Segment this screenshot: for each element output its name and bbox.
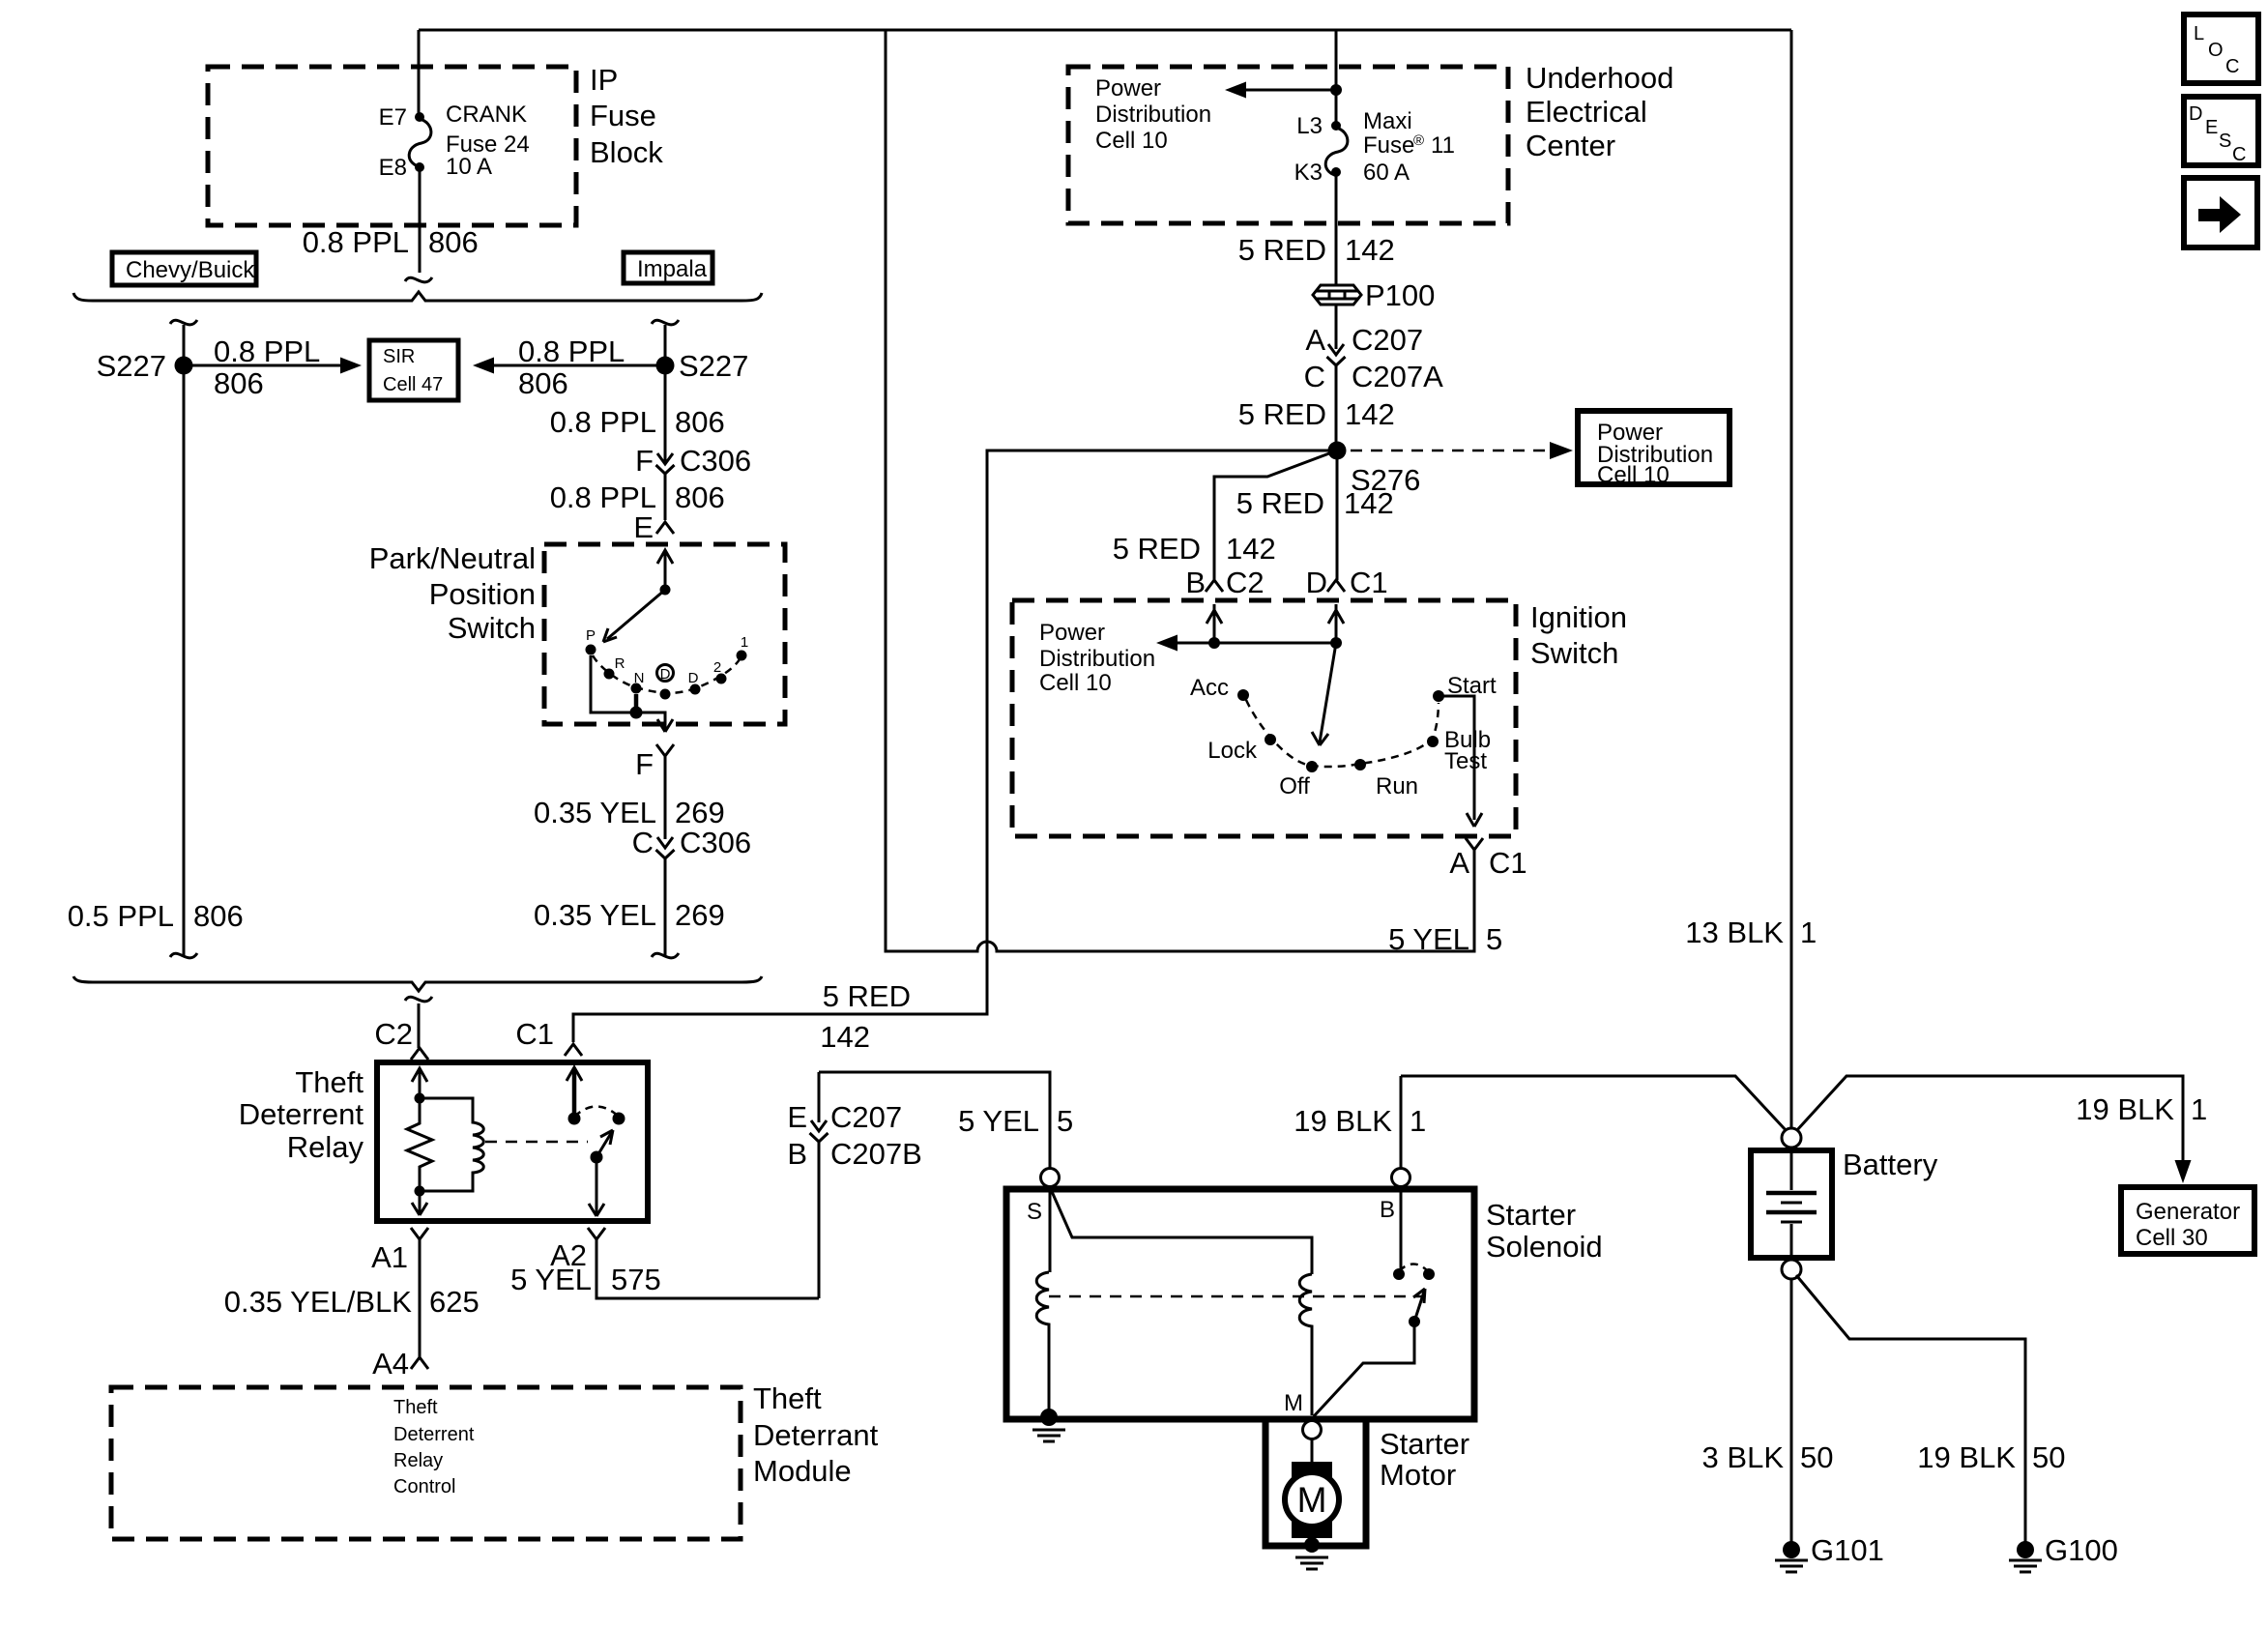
svg-text:C1: C1 xyxy=(515,1017,554,1051)
svg-text:0.8 PPL: 0.8 PPL xyxy=(550,480,656,514)
svg-text:L3: L3 xyxy=(1296,113,1323,139)
svg-text:C207: C207 xyxy=(1352,323,1423,357)
svg-text:D: D xyxy=(1306,566,1327,599)
svg-text:Maxi: Maxi xyxy=(1363,108,1412,134)
svg-text:A4: A4 xyxy=(372,1347,409,1381)
svg-text:Acc: Acc xyxy=(1190,675,1229,701)
svg-text:Underhood: Underhood xyxy=(1526,61,1673,95)
svg-text:19 BLK: 19 BLK xyxy=(2076,1092,2174,1126)
svg-text:M: M xyxy=(1284,1390,1303,1416)
svg-text:S: S xyxy=(1027,1199,1042,1225)
svg-text:E8: E8 xyxy=(379,155,407,181)
svg-text:Starter: Starter xyxy=(1486,1198,1576,1232)
svg-text:Battery: Battery xyxy=(1843,1148,1938,1181)
svg-text:806: 806 xyxy=(518,366,568,400)
svg-text:Theft: Theft xyxy=(295,1065,363,1099)
svg-text:®: ® xyxy=(1413,132,1424,149)
svg-text:B: B xyxy=(787,1137,807,1171)
svg-text:Electrical: Electrical xyxy=(1526,95,1647,129)
svg-text:C306: C306 xyxy=(680,444,751,478)
svg-text:F: F xyxy=(635,747,654,781)
svg-text:13 BLK: 13 BLK xyxy=(1685,916,1784,949)
svg-text:S: S xyxy=(2219,131,2231,152)
svg-text:60 A: 60 A xyxy=(1363,160,1410,186)
svg-text:50: 50 xyxy=(1800,1440,1833,1474)
svg-text:11: 11 xyxy=(1431,132,1455,159)
svg-text:IP: IP xyxy=(590,63,618,97)
svg-text:0.5 PPL: 0.5 PPL xyxy=(68,899,174,933)
svg-text:Power: Power xyxy=(1095,75,1161,102)
svg-text:D: D xyxy=(660,666,671,683)
svg-text:0.35 YEL: 0.35 YEL xyxy=(534,796,656,829)
svg-text:Deterrant: Deterrant xyxy=(753,1418,879,1452)
svg-text:Park/Neutral: Park/Neutral xyxy=(369,541,536,575)
svg-text:A: A xyxy=(1305,323,1325,357)
svg-text:Cell 10: Cell 10 xyxy=(1095,128,1168,154)
svg-text:Center: Center xyxy=(1526,129,1615,162)
svg-text:1: 1 xyxy=(1410,1104,1426,1138)
svg-text:5 RED: 5 RED xyxy=(1113,532,1201,566)
svg-text:Cell 10: Cell 10 xyxy=(1597,462,1670,488)
svg-text:Switch: Switch xyxy=(448,611,536,645)
svg-text:Theft: Theft xyxy=(393,1397,438,1418)
svg-text:Control: Control xyxy=(393,1476,455,1497)
svg-text:S227: S227 xyxy=(679,349,748,383)
svg-text:G101: G101 xyxy=(1811,1533,1884,1567)
svg-text:Lock: Lock xyxy=(1207,738,1258,764)
svg-text:Power: Power xyxy=(1039,620,1105,646)
svg-text:C: C xyxy=(2232,144,2246,165)
svg-text:Module: Module xyxy=(753,1454,852,1488)
svg-text:5 YEL: 5 YEL xyxy=(1388,922,1469,956)
svg-text:5 YEL: 5 YEL xyxy=(510,1263,592,1296)
svg-text:19 BLK: 19 BLK xyxy=(1917,1440,2016,1474)
svg-text:C207A: C207A xyxy=(1352,360,1443,393)
svg-text:D: D xyxy=(688,670,699,686)
svg-text:R: R xyxy=(615,655,625,672)
svg-text:A: A xyxy=(1449,846,1469,880)
svg-text:Cell 47: Cell 47 xyxy=(383,374,443,395)
svg-text:N: N xyxy=(634,670,645,686)
svg-text:C1: C1 xyxy=(1489,846,1527,880)
svg-text:F: F xyxy=(635,444,654,478)
svg-text:Test: Test xyxy=(1444,748,1487,774)
svg-text:0.8 PPL: 0.8 PPL xyxy=(214,334,320,368)
svg-text:Position: Position xyxy=(429,577,536,611)
svg-text:Relay: Relay xyxy=(287,1130,364,1164)
svg-text:5: 5 xyxy=(1486,922,1502,956)
svg-text:5 RED: 5 RED xyxy=(823,979,911,1013)
svg-text:Off: Off xyxy=(1279,773,1310,799)
svg-text:625: 625 xyxy=(429,1285,480,1319)
svg-text:0.35 YEL: 0.35 YEL xyxy=(534,898,656,932)
svg-text:806: 806 xyxy=(193,899,244,933)
svg-text:E7: E7 xyxy=(379,104,407,131)
svg-text:Impala: Impala xyxy=(637,256,708,282)
svg-text:269: 269 xyxy=(675,796,725,829)
svg-text:K3: K3 xyxy=(1294,160,1323,186)
svg-text:C2: C2 xyxy=(1226,566,1265,599)
svg-text:806: 806 xyxy=(428,225,479,259)
svg-text:806: 806 xyxy=(214,366,264,400)
svg-text:C: C xyxy=(2225,56,2239,77)
svg-text:E: E xyxy=(787,1100,807,1134)
svg-text:C: C xyxy=(1304,360,1325,393)
svg-text:P100: P100 xyxy=(1365,278,1435,312)
svg-text:Block: Block xyxy=(590,135,663,169)
svg-text:142: 142 xyxy=(1344,486,1394,520)
svg-text:Deterrent: Deterrent xyxy=(239,1097,364,1131)
svg-text:B: B xyxy=(1185,566,1206,599)
svg-text:0.8 PPL: 0.8 PPL xyxy=(518,334,625,368)
svg-text:Theft: Theft xyxy=(753,1381,822,1415)
svg-text:Run: Run xyxy=(1376,773,1418,799)
svg-text:D: D xyxy=(2189,103,2202,125)
svg-text:Generator: Generator xyxy=(2136,1199,2240,1225)
svg-text:Deterrent: Deterrent xyxy=(393,1424,475,1445)
svg-text:L: L xyxy=(2194,23,2204,44)
svg-text:CRANK: CRANK xyxy=(446,102,527,128)
svg-text:5: 5 xyxy=(1057,1104,1073,1138)
svg-text:Distribution: Distribution xyxy=(1095,102,1211,128)
svg-text:C2: C2 xyxy=(374,1017,413,1051)
svg-text:806: 806 xyxy=(675,405,725,439)
svg-text:Ignition: Ignition xyxy=(1530,600,1627,634)
svg-text:Switch: Switch xyxy=(1530,636,1618,670)
svg-text:5 RED: 5 RED xyxy=(1238,397,1326,431)
svg-text:142: 142 xyxy=(1345,397,1395,431)
svg-text:19 BLK: 19 BLK xyxy=(1294,1104,1392,1138)
svg-text:0.35 YEL/BLK: 0.35 YEL/BLK xyxy=(224,1285,413,1319)
svg-text:5 YEL: 5 YEL xyxy=(958,1104,1039,1138)
svg-text:Motor: Motor xyxy=(1380,1458,1456,1492)
svg-text:0.8 PPL: 0.8 PPL xyxy=(303,225,409,259)
svg-text:S227: S227 xyxy=(97,349,166,383)
svg-text:1: 1 xyxy=(1800,916,1817,949)
svg-text:M: M xyxy=(1297,1480,1327,1520)
svg-text:2: 2 xyxy=(713,659,721,676)
svg-text:142: 142 xyxy=(1345,233,1395,267)
svg-text:10 A: 10 A xyxy=(446,154,492,180)
svg-text:Fuse: Fuse xyxy=(590,99,656,132)
svg-text:Solenoid: Solenoid xyxy=(1486,1230,1603,1264)
svg-text:Cell 10: Cell 10 xyxy=(1039,670,1112,696)
svg-text:E: E xyxy=(633,510,654,544)
svg-text:SIR: SIR xyxy=(383,346,415,367)
svg-text:5 RED: 5 RED xyxy=(1236,486,1324,520)
svg-text:142: 142 xyxy=(1226,532,1276,566)
svg-text:Distribution: Distribution xyxy=(1039,646,1155,672)
svg-text:142: 142 xyxy=(820,1020,870,1054)
svg-text:1: 1 xyxy=(2191,1092,2207,1126)
svg-text:806: 806 xyxy=(675,480,725,514)
svg-text:P: P xyxy=(586,627,596,644)
svg-text:5 RED: 5 RED xyxy=(1238,233,1326,267)
svg-text:Relay: Relay xyxy=(393,1450,443,1471)
svg-text:269: 269 xyxy=(675,898,725,932)
svg-text:0.8 PPL: 0.8 PPL xyxy=(550,405,656,439)
svg-text:50: 50 xyxy=(2032,1440,2065,1474)
svg-text:Chevy/Buick: Chevy/Buick xyxy=(126,257,255,283)
svg-text:3 BLK: 3 BLK xyxy=(1702,1440,1785,1474)
svg-text:C: C xyxy=(632,826,654,859)
svg-text:O: O xyxy=(2208,40,2224,61)
svg-text:E: E xyxy=(2205,117,2218,138)
svg-text:575: 575 xyxy=(611,1263,661,1296)
svg-text:B: B xyxy=(1380,1197,1395,1223)
svg-text:C207B: C207B xyxy=(830,1137,922,1171)
svg-text:A1: A1 xyxy=(371,1240,408,1274)
svg-text:Fuse: Fuse xyxy=(1363,132,1414,159)
svg-text:C1: C1 xyxy=(1350,566,1388,599)
svg-text:Cell 30: Cell 30 xyxy=(2136,1225,2208,1251)
svg-text:C207: C207 xyxy=(830,1100,902,1134)
svg-text:1: 1 xyxy=(741,634,748,651)
svg-text:Starter: Starter xyxy=(1380,1427,1469,1461)
svg-text:G100: G100 xyxy=(2045,1533,2118,1567)
svg-text:C306: C306 xyxy=(680,826,751,859)
